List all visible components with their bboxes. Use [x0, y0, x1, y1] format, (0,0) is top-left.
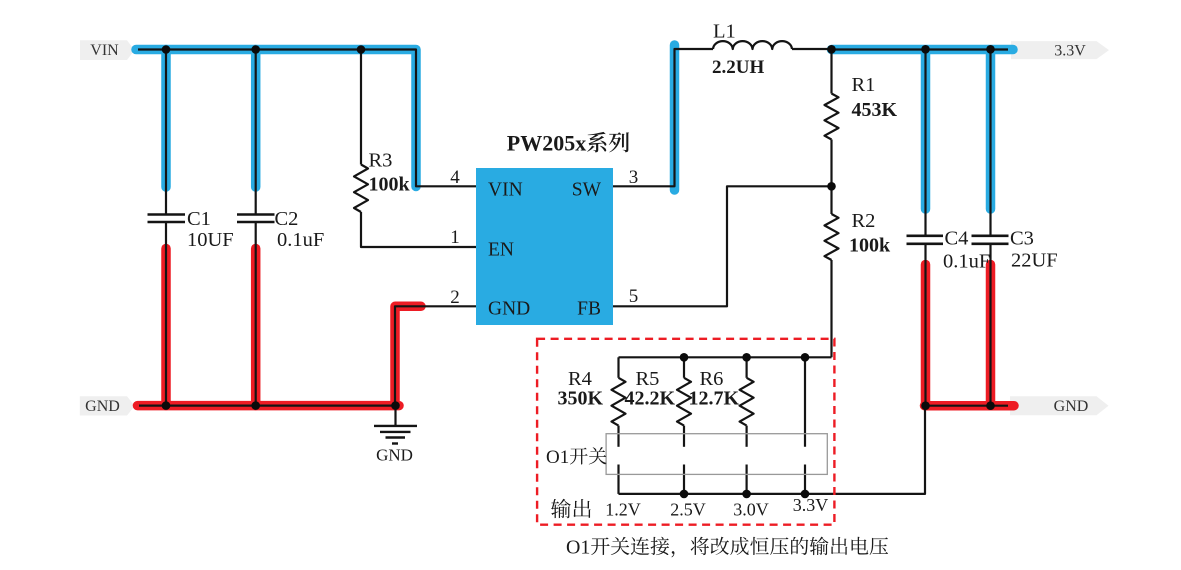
svg-text:C2: C2: [275, 208, 299, 230]
svg-text:VIN: VIN: [488, 180, 523, 201]
svg-text:2: 2: [450, 287, 460, 308]
svg-text:10UF: 10UF: [187, 229, 234, 251]
svg-text:C4: C4: [945, 228, 969, 250]
svg-text:L1: L1: [713, 21, 736, 43]
svg-text:22UF: 22UF: [1011, 250, 1058, 272]
svg-text:EN: EN: [488, 240, 514, 261]
svg-text:FB: FB: [577, 299, 601, 320]
svg-text:100k: 100k: [849, 235, 891, 257]
svg-text:PW205x: PW205x: [507, 131, 586, 156]
svg-text:GND: GND: [376, 445, 413, 464]
svg-text:2.5V: 2.5V: [670, 499, 706, 519]
svg-text:1: 1: [450, 227, 460, 248]
svg-text:100k: 100k: [369, 174, 411, 196]
svg-text:1.2V: 1.2V: [605, 499, 641, 519]
svg-text:GND: GND: [488, 299, 530, 320]
svg-text:4: 4: [450, 167, 460, 188]
svg-text:R3: R3: [369, 150, 393, 172]
svg-text:R2: R2: [852, 210, 876, 232]
svg-text:42.2K: 42.2K: [625, 388, 676, 410]
svg-text:2.2UH: 2.2UH: [712, 57, 764, 78]
svg-text:0.1uF: 0.1uF: [277, 229, 324, 251]
svg-text:0.1uF: 0.1uF: [943, 251, 990, 273]
svg-text:3.3V: 3.3V: [1054, 43, 1086, 60]
svg-text:O1: O1: [566, 537, 590, 559]
svg-text:O1: O1: [546, 447, 569, 468]
svg-text:3.3V: 3.3V: [793, 495, 829, 515]
svg-text:C3: C3: [1010, 228, 1034, 250]
svg-text:R1: R1: [852, 74, 876, 96]
svg-text:VIN: VIN: [90, 42, 119, 59]
svg-text:12.7K: 12.7K: [689, 388, 740, 410]
svg-text:GND: GND: [85, 398, 120, 415]
svg-text:453K: 453K: [852, 99, 898, 121]
svg-text:GND: GND: [1054, 398, 1089, 415]
svg-text:3.0V: 3.0V: [733, 499, 769, 519]
svg-text:3: 3: [629, 167, 639, 188]
svg-text:SW: SW: [572, 180, 602, 201]
svg-text:350K: 350K: [558, 388, 604, 410]
svg-text:C1: C1: [187, 208, 211, 230]
svg-text:5: 5: [629, 286, 639, 307]
